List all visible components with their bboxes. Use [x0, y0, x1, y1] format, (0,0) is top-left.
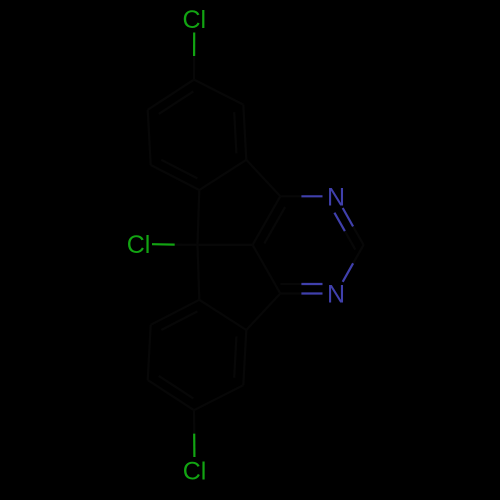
wire: bottom benzo double bond B3=B4 inner — [159, 376, 194, 399]
wire: bond C6-C5 — [253, 245, 281, 294]
wire: top benzo double bond T3=T4 main — [148, 80, 194, 110]
node N3: nitrogen label (top N) — [327, 184, 345, 212]
svg-text:N: N — [327, 184, 345, 212]
wire: top benzo double bond T5=T6 inner — [234, 112, 236, 153]
wire: double bond N1=C6 inner line — [280, 283, 322, 285]
node N1: nitrogen label (bottom N) — [327, 281, 345, 309]
wire: top benzo bond T4-T5 — [194, 80, 243, 105]
wire: double bond N1=C6 main line — [280, 292, 322, 294]
wire: bond B4-Cl bottom — [193, 410, 196, 457]
node Cl central: chlorine label on sp3 carbon — [127, 231, 151, 259]
svg-text:Cl: Cl — [182, 6, 206, 34]
svg-text:N: N — [327, 281, 345, 309]
wire: bottom benzo bond B4-B5 — [194, 385, 243, 410]
wire: bottom benzo double bond B1=B2 inner — [161, 311, 197, 330]
wire: bottom benzo double bond B3=B4 main — [148, 380, 194, 410]
wire: bond X-C5 (sp3 bridge to pyrimidine) — [198, 244, 253, 246]
wire: top benzo double bond T5=T6 main — [243, 105, 246, 160]
svg-text:Cl: Cl — [127, 231, 151, 259]
wire: bottom benzo bond B2-B3 — [148, 325, 151, 380]
wire: bond X-B1 (to bottom benzo ring) — [198, 245, 200, 300]
node Cl top: chlorine label on top benzo ring — [182, 6, 206, 34]
wire: bond X-T1 (to top benzo ring) — [198, 190, 200, 245]
node Cl bottom: chlorine label on bottom benzo ring — [183, 458, 207, 486]
wire: fusion bond B6-C6 — [246, 294, 280, 331]
wire: top benzo double bond T1=T2 inner — [161, 160, 197, 179]
wire: bond C4-N3 (pyrimidine) — [280, 195, 322, 197]
wire: bottom benzo double bond B1=B2 main — [151, 300, 200, 325]
wire: double bond C5=C4 main line — [253, 196, 281, 245]
wire: fusion bond T6-C4 — [246, 160, 280, 197]
wire: bottom benzo double bond B5=B6 inner — [234, 337, 236, 378]
wire: bottom benzo double bond B5=B6 main — [243, 330, 246, 385]
wire: top benzo bond T2-T3 — [148, 110, 151, 165]
wire: bottom benzo bond B6-B1 — [199, 300, 246, 330]
svg-text:Cl: Cl — [183, 458, 207, 486]
wire: bond X-Cl central — [152, 243, 198, 246]
wire: bond T4-Cl top — [193, 33, 195, 80]
wire: top benzo double bond T1=T2 main — [151, 165, 200, 190]
wire: top benzo bond T6-T1 — [199, 160, 246, 190]
wire: double bond N3=C2 main line — [343, 208, 364, 245]
wire: double bond N3=C2 inner line — [334, 213, 355, 250]
wire: double bond C5=C4 inner line — [264, 207, 285, 243]
wire: top benzo double bond T3=T4 inner — [159, 91, 194, 114]
wire: bond C2-N1 — [343, 245, 364, 282]
